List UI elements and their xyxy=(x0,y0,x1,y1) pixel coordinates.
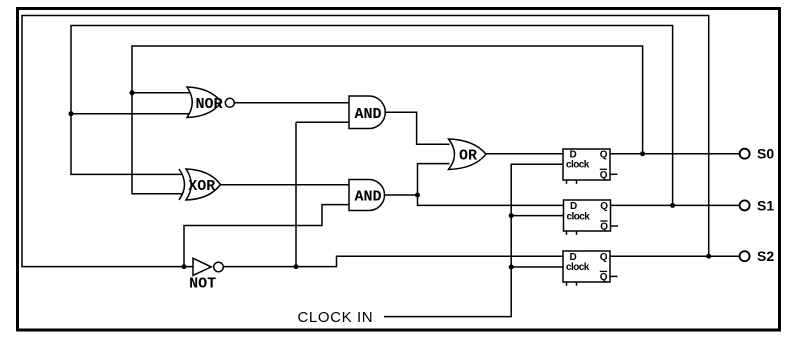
svg-text:Q: Q xyxy=(600,149,608,160)
svg-text:Q: Q xyxy=(600,222,608,233)
svg-text:S0: S0 xyxy=(757,146,774,162)
svg-text:Q: Q xyxy=(600,272,608,283)
svg-text:NOR: NOR xyxy=(195,96,222,113)
svg-text:Q: Q xyxy=(600,201,608,212)
svg-text:clock: clock xyxy=(566,160,590,171)
svg-text:AND: AND xyxy=(354,106,381,123)
svg-text:XOR: XOR xyxy=(188,178,215,195)
svg-text:clock: clock xyxy=(566,262,590,273)
svg-text:S1: S1 xyxy=(757,197,774,213)
svg-text:S2: S2 xyxy=(757,248,774,264)
svg-text:NOT: NOT xyxy=(189,276,216,293)
svg-text:AND: AND xyxy=(354,189,381,206)
svg-text:clock: clock xyxy=(567,211,591,222)
svg-text:CLOCK IN: CLOCK IN xyxy=(298,309,374,326)
svg-text:Q: Q xyxy=(600,170,608,181)
svg-text:Q: Q xyxy=(600,252,608,263)
svg-text:OR: OR xyxy=(459,148,477,165)
